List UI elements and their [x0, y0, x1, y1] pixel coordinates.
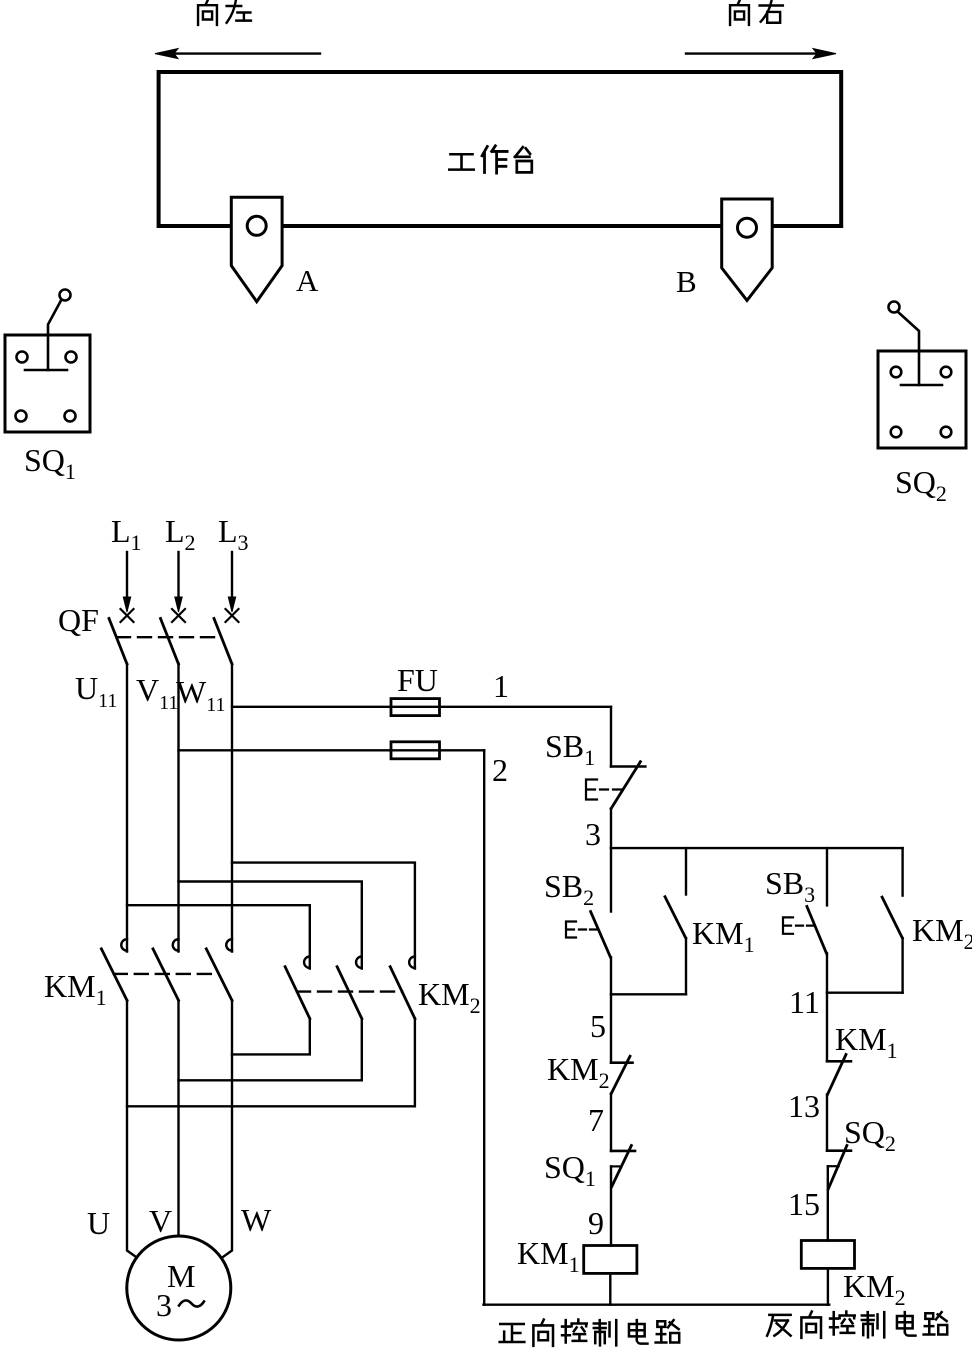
svg-text:9: 9 — [588, 1205, 604, 1241]
svg-text:U11: U11 — [75, 670, 117, 712]
wire V down to motor — [177, 1000, 179, 1236]
svg-text:KM2: KM2 — [418, 976, 481, 1018]
svg-text:SB2: SB2 — [544, 868, 594, 910]
svg-text:V11: V11 — [136, 672, 178, 714]
svg-text:7: 7 — [588, 1102, 604, 1138]
wire U11 vertical — [126, 664, 128, 952]
wire V to KM2 pole2 — [179, 882, 362, 969]
svg-text:11: 11 — [789, 984, 820, 1020]
wire KM2 pole3 to U — [127, 1019, 415, 1107]
wire — [610, 809, 612, 849]
svg-text:3: 3 — [156, 1287, 172, 1323]
svg-text:B: B — [676, 264, 697, 299]
fuse FU1 — [391, 699, 440, 716]
wire 1 horizontal — [232, 706, 611, 708]
wire bottom bus — [484, 1303, 830, 1305]
contactor KM2 pole 2 — [356, 957, 362, 969]
contactor KM1 pole 2 — [173, 939, 179, 951]
breaker QF linkage dashed — [117, 636, 221, 638]
svg-text:13: 13 — [788, 1088, 820, 1124]
contactor KM2 pole 3 — [409, 957, 415, 969]
svg-text:U: U — [87, 1205, 110, 1241]
svg-text:15: 15 — [788, 1186, 820, 1222]
svg-text:1: 1 — [493, 668, 509, 704]
svg-text:QF: QF — [58, 602, 99, 638]
label 向右 (to right) — [730, 0, 783, 25]
svg-text:SQ2: SQ2 — [895, 464, 947, 506]
svg-text:L1: L1 — [111, 513, 142, 555]
pushbutton SB3 (NO start) — [826, 848, 828, 905]
wire node-3 bus — [611, 847, 903, 849]
wire W to KM2 pole3 — [232, 863, 415, 969]
contact KM1 NC interlock — [827, 1060, 851, 1063]
wire KM2 pole1 to W — [232, 1019, 310, 1055]
pushbutton SB1 (NC) — [611, 765, 645, 768]
contact KM2 NC interlock — [611, 1061, 633, 1064]
wire KM2 pole2 to V — [179, 1019, 362, 1081]
svg-text:L3: L3 — [218, 513, 249, 555]
svg-text:W: W — [241, 1202, 272, 1238]
wire W down to motor — [222, 1000, 232, 1257]
svg-text:A: A — [296, 263, 319, 298]
contactor KM2 linkage dashed — [297, 990, 402, 992]
contactor KM1 pole 3 — [226, 939, 232, 951]
wire — [827, 1268, 829, 1304]
label 工作台 — [449, 146, 531, 173]
caption 正向控制电路 (forward control circuit) — [500, 1320, 680, 1346]
svg-text:SQ1: SQ1 — [544, 1149, 596, 1191]
right arrow — [686, 52, 830, 54]
svg-text:KM2: KM2 — [843, 1268, 906, 1310]
wire L2 drop — [177, 552, 179, 598]
svg-text:KM1: KM1 — [44, 968, 107, 1010]
svg-text:V: V — [149, 1203, 172, 1239]
wire SB1 drop — [610, 707, 612, 767]
caption 反向控制电路 (reverse control circuit) — [767, 1312, 947, 1338]
limit switch SQ2 NC contact — [827, 1149, 851, 1152]
wire — [610, 994, 612, 1062]
svg-text:SB1: SB1 — [545, 728, 595, 770]
svg-text:3: 3 — [585, 816, 601, 852]
wire V11 vertical — [177, 664, 179, 952]
dog B (cam block) — [722, 199, 773, 300]
wire L1 drop — [126, 552, 128, 598]
svg-text:SQ1: SQ1 — [24, 442, 76, 484]
left arrow — [160, 52, 320, 54]
wire: left control rail down — [483, 750, 485, 1304]
svg-text:KM1: KM1 — [692, 915, 755, 957]
breaker QF pole 3 — [226, 609, 239, 622]
wire — [826, 993, 828, 1062]
svg-text:KM2: KM2 — [912, 912, 972, 954]
wire 2 horizontal — [179, 749, 485, 751]
wire L3 drop — [231, 552, 233, 598]
dog A (cam block) — [231, 197, 282, 301]
svg-text:FU: FU — [397, 662, 438, 698]
contactor KM1 pole 1 — [121, 939, 127, 951]
breaker QF pole 1 — [121, 609, 134, 622]
wire junction — [611, 993, 686, 995]
breaker QF pole 2 — [172, 609, 185, 622]
limit switch SQ1 NC contact — [611, 1150, 635, 1153]
contactor KM2 pole 1 — [304, 957, 310, 969]
wire U to KM2 pole1 — [127, 905, 310, 968]
contact KM2 aux (seal-in) — [901, 848, 903, 896]
pushbutton SB2 (NO start) — [610, 848, 612, 912]
wire W11 vertical — [231, 664, 233, 952]
fuse FU2 — [391, 742, 440, 759]
svg-text:KM2: KM2 — [547, 1051, 610, 1093]
wire junction — [827, 992, 903, 994]
contactor KM1 linkage dashed — [114, 973, 219, 975]
label 向左 (to left) — [198, 0, 251, 25]
contact KM1 aux (seal-in) — [685, 848, 687, 894]
svg-text:L2: L2 — [165, 513, 196, 555]
svg-text:W11: W11 — [176, 674, 225, 716]
svg-text:SB3: SB3 — [765, 865, 815, 907]
wire — [609, 1273, 611, 1304]
coil KM1 — [584, 1246, 637, 1274]
svg-text:KM1: KM1 — [517, 1235, 580, 1277]
motor M circle — [127, 1236, 231, 1340]
svg-text:2: 2 — [492, 752, 508, 788]
wire U down to motor — [127, 1000, 137, 1257]
workbench 工作台 rectangle — [159, 72, 842, 226]
coil KM2 — [801, 1241, 854, 1269]
svg-text:5: 5 — [590, 1008, 606, 1044]
